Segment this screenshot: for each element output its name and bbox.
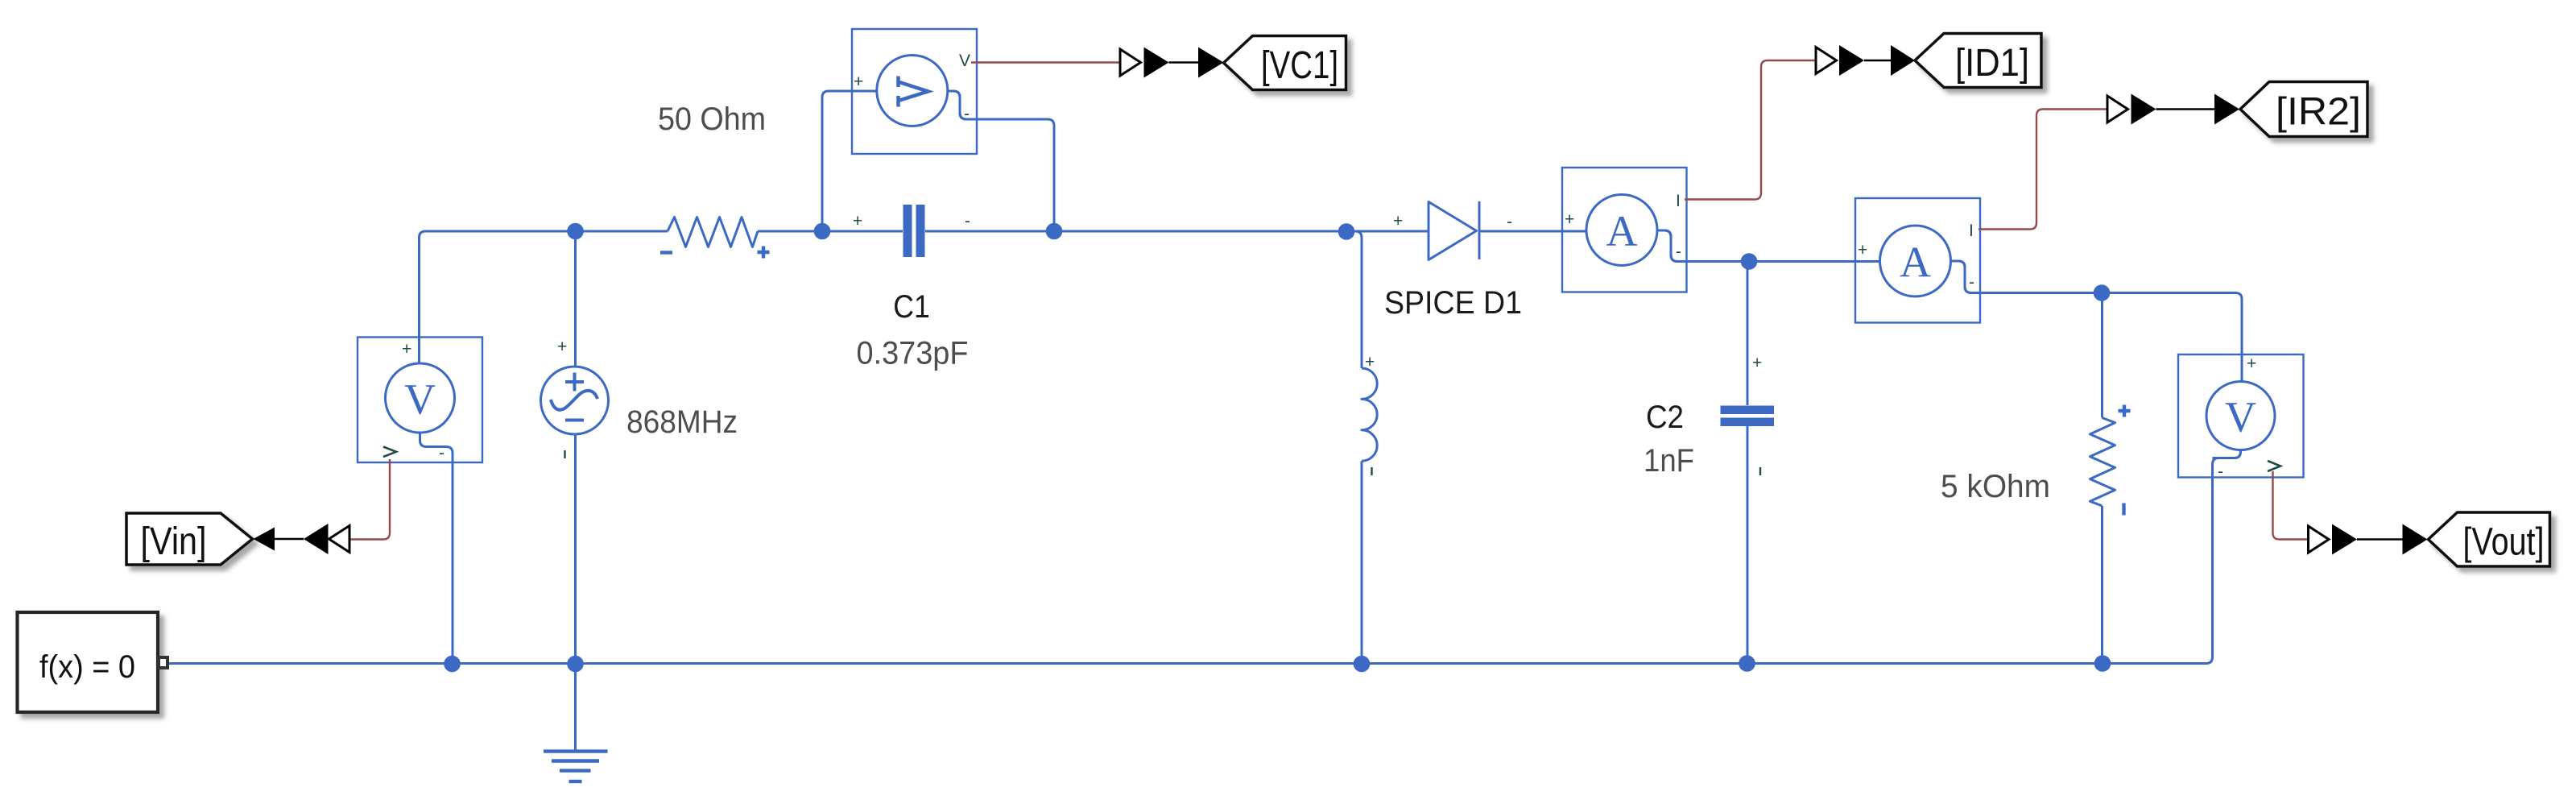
wire: source top drop xyxy=(574,231,577,367)
resistor R2 polarity marks xyxy=(2119,405,2131,516)
svg-text:-: - xyxy=(439,444,444,462)
resistor R2 5 kOhm zigzag xyxy=(2090,418,2115,507)
wire: C2 top drop xyxy=(1747,262,1749,406)
svg-text:1nF: 1nF xyxy=(1644,443,1694,479)
junction: ground bus at 5 kOhm xyxy=(2094,655,2111,672)
wire: diode cathode to ammeter U2 xyxy=(1479,230,1587,233)
junction: C1 minus node xyxy=(1046,223,1063,240)
svg-text:SPICE D1: SPICE D1 xyxy=(1384,285,1522,321)
connector arrows for [Vin] xyxy=(254,524,350,554)
junction: ground bus at source xyxy=(567,656,584,673)
junction: ground bus at Vin sensor xyxy=(444,656,461,673)
svg-text:-: - xyxy=(1969,273,1974,292)
capacitor C1 plates xyxy=(853,205,970,257)
inductor L1 coil xyxy=(1362,368,1377,461)
svg-text:[Vout]: [Vout] xyxy=(2463,521,2545,564)
wire: main top net from Vin sensor corner to resistor xyxy=(420,231,668,363)
connector arrows for [ID1] xyxy=(1816,45,1915,76)
svg-text:[ID1]: [ID1] xyxy=(1955,42,2029,85)
svg-text:5 kOhm: 5 kOhm xyxy=(1941,469,2050,504)
resistor R1 50 Ohm zigzag xyxy=(668,218,758,247)
wire: 5 kOhm resistor branch xyxy=(2101,293,2103,418)
svg-text:+: + xyxy=(1365,353,1375,371)
junction: ground bus at inductor xyxy=(1354,656,1371,673)
svg-text:-: - xyxy=(2218,462,2223,481)
junction: C1 plus node xyxy=(814,223,831,240)
wire: source bottom to ground xyxy=(574,434,577,750)
svg-text:A: A xyxy=(1900,238,1931,287)
svg-text:+: + xyxy=(1565,210,1574,229)
svg-text:V: V xyxy=(2225,393,2256,441)
svg-text:+: + xyxy=(557,338,567,356)
svg-text:50 Ohm: 50 Ohm xyxy=(658,102,766,137)
svg-text:+: + xyxy=(854,73,863,91)
connector arrows for [Vout] xyxy=(2309,524,2428,555)
junction: C2 top node xyxy=(1741,253,1758,270)
connector arrows for [VC1] xyxy=(1120,48,1224,78)
svg-text:C2: C2 xyxy=(1646,400,1684,435)
svg-text:I: I xyxy=(1969,222,1974,240)
svg-text:A: A xyxy=(1606,207,1638,255)
svg-text:-: - xyxy=(964,105,970,123)
svg-text:-: - xyxy=(1507,213,1512,231)
AC voltage source V1 868MHz xyxy=(541,338,609,458)
svg-text:-: - xyxy=(965,212,970,230)
svg-text:C1: C1 xyxy=(893,289,930,325)
svg-text:[VC1]: [VC1] xyxy=(1261,44,1338,87)
junction: 5 kOhm top node xyxy=(2094,284,2111,301)
wire: Vin sensor minus down to ground bus xyxy=(420,433,453,664)
connector arrows for [IR2] xyxy=(2107,94,2239,125)
voltage sensor U4 box (Vout) xyxy=(2178,354,2304,481)
svg-text:[Vin]: [Vin] xyxy=(141,520,207,563)
wire: inductor top drop from main net xyxy=(1346,231,1362,368)
wire: red signal Vout sensor to Goto tag xyxy=(2273,471,2309,540)
junction: source top node xyxy=(567,223,584,240)
svg-text:+: + xyxy=(1752,354,1762,372)
wire: C1 right plate to diode anode xyxy=(925,230,1429,233)
svg-text:I: I xyxy=(1676,192,1681,210)
Goto tag [Vout] xyxy=(2429,512,2550,566)
svg-text:-: - xyxy=(1676,242,1681,261)
svg-text:f(x) = 0: f(x) = 0 xyxy=(39,649,135,685)
Goto tag [ID1] xyxy=(1915,34,2041,88)
svg-text:868MHz: 868MHz xyxy=(626,404,738,440)
ground G1 xyxy=(544,752,608,781)
svg-text:+: + xyxy=(2247,354,2256,373)
wire: resistor to C1 left plate xyxy=(758,230,903,233)
ammeter U2 box xyxy=(1562,168,1687,292)
wire: red signal ammeter U3 to Goto tag IR2 xyxy=(1979,110,2107,230)
wire: ammeter U2 out to ammeter U3 xyxy=(1657,230,1880,262)
capacitor C2 plates xyxy=(1721,354,1775,475)
svg-text:[IR2]: [IR2] xyxy=(2276,91,2361,134)
inductor polarity marks xyxy=(1365,353,1375,475)
resistor R1 polarity marks xyxy=(660,247,770,259)
wire: VC1 sensor left branch xyxy=(822,91,877,231)
svg-text:+: + xyxy=(853,212,862,230)
voltage sensor U1 box (Vin) xyxy=(358,338,482,463)
Goto tag [IR2] xyxy=(2240,82,2367,137)
junction: inductor top node xyxy=(1338,223,1355,240)
wire: red signal ammeter U2 to Goto tag ID1 xyxy=(1685,60,1816,200)
wire: ammeter U3 out to Vout sensor plus xyxy=(1951,261,2243,382)
diode D1 xyxy=(1393,201,1512,260)
wire: VC1 sensor right branch down to node xyxy=(948,91,1055,231)
ammeter U3 box xyxy=(1855,198,1980,323)
wire: ground bus from solver block to Vout sensor minus xyxy=(167,450,2241,664)
voltage sensor U5 box (VC1) xyxy=(852,29,977,154)
svg-text:+: + xyxy=(402,340,411,358)
svg-text:V: V xyxy=(959,52,970,70)
Goto tag [VC1] xyxy=(1224,36,1346,90)
wire: 5 kOhm resistor bottom to bus xyxy=(2101,506,2103,664)
solver block f(x) = 0 xyxy=(18,612,168,712)
wire: C2 bottom to bus xyxy=(1747,426,1749,664)
svg-text:V: V xyxy=(404,375,436,424)
svg-text:0.373pF: 0.373pF xyxy=(857,336,969,371)
wire: red signal VC1 sensor to Goto tag xyxy=(971,61,1120,63)
From tag [Vin] xyxy=(126,513,253,565)
svg-text:+: + xyxy=(1393,212,1403,230)
svg-text:+: + xyxy=(1858,241,1867,259)
wire: red signal Vin sensor to From tag xyxy=(349,459,390,540)
junction: ground bus at C2 xyxy=(1739,655,1755,672)
wire: inductor bottom to bus xyxy=(1361,461,1363,663)
